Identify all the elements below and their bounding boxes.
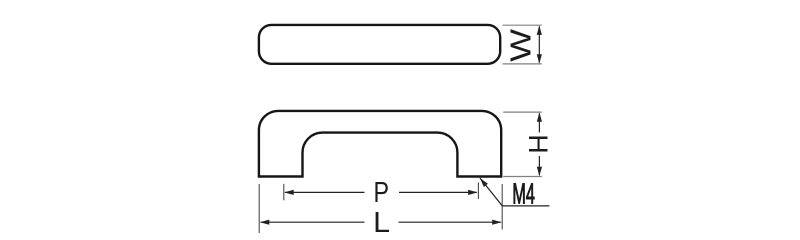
P extension line left [283,184,285,201]
H dimension line [538,114,540,133]
W dimension line [538,27,540,63]
L dimension line [261,221,365,223]
H extension line top [503,111,542,113]
front view handle body [259,111,501,177]
svg-text:M4: M4 [512,177,535,209]
svg-text:H: H [523,134,553,154]
P dimension line [285,191,365,193]
svg-text:W: W [504,29,536,62]
P extension line right [477,183,479,200]
M4 leader line [480,178,550,206]
W extension line top [503,24,542,26]
top view handle body [259,25,500,64]
L extension line left [258,184,260,233]
L extension line right [501,184,503,230]
svg-text:P: P [373,176,388,209]
W extension line bottom [503,63,542,65]
svg-text:L: L [373,207,390,239]
H extension line bottom [503,176,542,178]
